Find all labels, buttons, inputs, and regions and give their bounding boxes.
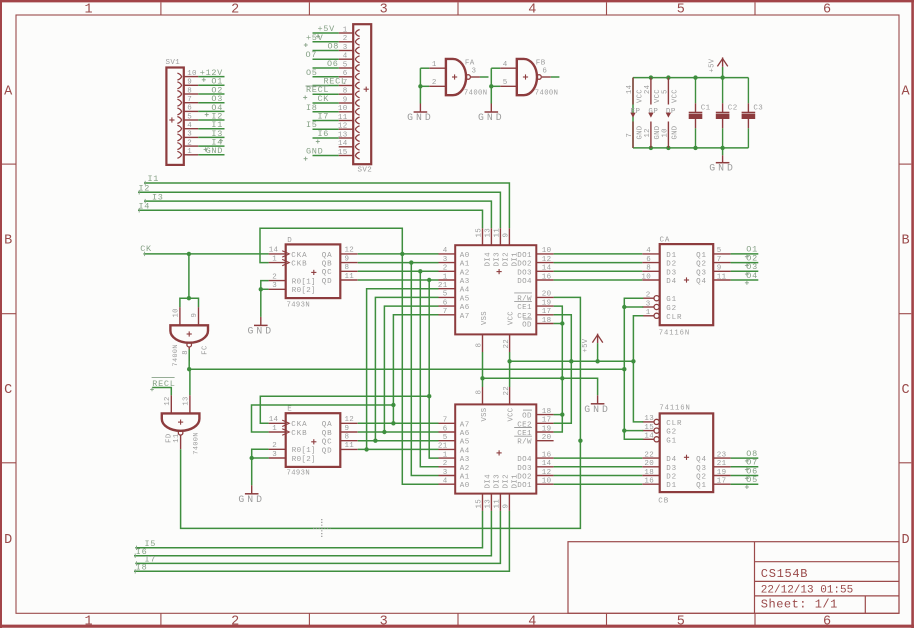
FB input pin 5 — [500, 85, 517, 87]
wire net I7 bus — [135, 511, 500, 564]
RAM H pin 13 DI3 — [490, 494, 492, 511]
FA output pin 3 — [471, 76, 480, 78]
junction H2 at latch G vertical — [622, 367, 626, 371]
CA pin 1 CLR — [642, 315, 654, 317]
svg-text:2: 2 — [343, 35, 348, 43]
FA origin cross — [452, 76, 457, 78]
wire FA inputs tied — [420, 67, 429, 69]
svg-text:5: 5 — [677, 615, 685, 628]
svg-text:A4: A4 — [460, 287, 470, 295]
svg-text:CKB: CKB — [291, 430, 307, 438]
svg-text:FD: FD — [166, 433, 174, 442]
svg-text:9: 9 — [345, 425, 350, 433]
CA pin 11 Q4 — [713, 279, 730, 281]
IC power GP arrow — [648, 113, 653, 118]
junction D R0 — [259, 287, 263, 291]
svg-text:5: 5 — [343, 61, 348, 69]
svg-text:O4: O4 — [746, 271, 758, 281]
E pin 14 CKA — [269, 422, 286, 424]
svg-text:4: 4 — [528, 3, 536, 18]
svg-text:10: 10 — [661, 128, 669, 137]
wire OD bottom stub to chain — [554, 414, 563, 416]
svg-text:CKB: CKB — [291, 261, 307, 269]
wire net I8 at SV2 pin 10 — [313, 111, 339, 113]
RAM pin 20 R/W — [536, 440, 553, 442]
svg-text:6: 6 — [542, 68, 547, 76]
CA pin 9 Q3 — [713, 270, 730, 272]
latch CA (74116N) box — [660, 244, 714, 325]
capacitor C2 — [722, 78, 724, 104]
wire D CKB feedback loop — [260, 228, 402, 262]
wire FB inputs tied — [491, 67, 500, 69]
svg-text:DI3: DI3 — [493, 474, 501, 489]
wire E R0 to ground — [252, 449, 269, 458]
junction CB G2 — [622, 428, 626, 432]
power rail left vertical — [632, 78, 634, 148]
ground below counter D — [260, 317, 262, 326]
svg-text:7: 7 — [717, 256, 722, 264]
svg-text:I8: I8 — [306, 103, 318, 113]
svg-text:G1: G1 — [666, 437, 677, 445]
svg-text:A0: A0 — [460, 482, 470, 490]
svg-text:22: 22 — [644, 451, 654, 459]
wire net O4 at SV1 — [198, 110, 224, 112]
wire OD top stub to chain — [554, 323, 563, 325]
SV2 pin 2 (+5V) — [339, 41, 354, 43]
svg-text:20: 20 — [644, 460, 654, 468]
svg-text:DI1: DI1 — [511, 474, 519, 489]
power GND symbol — [722, 148, 724, 155]
svg-text:Q3: Q3 — [696, 465, 707, 473]
wire net O1 — [731, 253, 759, 255]
IC power DP arrow — [666, 113, 671, 118]
svg-text:Q1: Q1 — [696, 252, 707, 260]
svg-text:3: 3 — [272, 282, 277, 290]
svg-text:Sheet: 1/1: Sheet: 1/1 — [761, 597, 838, 611]
FB input pin 4 — [500, 67, 517, 69]
svg-text:CA: CA — [660, 237, 671, 245]
svg-text:GND: GND — [206, 146, 223, 156]
svg-text:A7: A7 — [460, 313, 470, 321]
svg-text:15: 15 — [644, 424, 654, 432]
svg-text:C1: C1 — [701, 105, 711, 113]
svg-text:1: 1 — [272, 425, 277, 433]
D pin 2 R0(1) — [269, 280, 286, 282]
RAM G pin 13 DI3 — [490, 228, 492, 245]
svg-text:16: 16 — [644, 478, 654, 486]
svg-text:10: 10 — [542, 478, 552, 486]
svg-text:8: 8 — [646, 265, 651, 273]
svg-text:7400N: 7400N — [172, 344, 180, 366]
svg-text:3: 3 — [187, 131, 192, 139]
SV2 pin 13 (I6) — [339, 137, 354, 139]
svg-text:CK: CK — [318, 94, 330, 104]
svg-text:GND: GND — [709, 163, 736, 174]
SV2 pin 6 (O5) — [339, 76, 354, 78]
svg-text:O6: O6 — [327, 59, 339, 69]
latch CB (74116N) box — [660, 413, 714, 492]
svg-text:C: C — [902, 383, 910, 398]
wire net RECL at SV2 pin 8 — [313, 93, 339, 95]
SV2 pin 10 (I8) — [339, 111, 354, 113]
svg-text:OD: OD — [522, 413, 532, 421]
wire net +5V at SV2 pin 2 — [313, 41, 339, 43]
E pin 12 QA — [340, 422, 357, 424]
CA pin 4 D1 — [642, 253, 659, 255]
RAM pin 1 A3 — [439, 279, 456, 281]
RAM pin 4 A0 — [439, 253, 456, 255]
svg-text:CLR: CLR — [666, 314, 682, 322]
FC output inversion circle — [187, 342, 192, 347]
svg-text:GND: GND — [306, 147, 323, 157]
svg-text:R/W: R/W — [517, 295, 532, 303]
svg-text:QB: QB — [322, 430, 333, 438]
RAM H overlines on OD CE1 RW — [523, 409, 532, 411]
svg-text:D4: D4 — [666, 456, 677, 464]
svg-text:CS154B: CS154B — [761, 567, 808, 581]
svg-text:4: 4 — [187, 122, 192, 130]
junction OD bottom — [560, 412, 564, 416]
svg-text:O7: O7 — [306, 50, 318, 60]
svg-text:Q2: Q2 — [696, 261, 707, 269]
SV1 pin 9 (O1) — [184, 84, 199, 86]
wire net CK at SV2 pin 9 — [313, 102, 339, 104]
power rail +5V top — [633, 77, 748, 79]
svg-text:A: A — [4, 84, 13, 99]
RAM pin 19 CE1 — [536, 431, 553, 433]
svg-text:2: 2 — [231, 615, 239, 628]
svg-text:12: 12 — [644, 128, 652, 137]
RAM pin 19 CE1 — [536, 305, 553, 307]
svg-text:R0[2]: R0[2] — [292, 287, 316, 295]
wire net I5 at SV2 pin 12 — [313, 128, 339, 130]
wire E vertical 3 — [393, 315, 438, 424]
CB origin cross — [684, 456, 689, 458]
svg-text:A7: A7 — [460, 421, 470, 429]
wire QD1 vertical — [411, 263, 438, 476]
SV2 label origin crosses — [316, 35, 320, 37]
junction E QD — [364, 447, 368, 451]
RAM G overlines on CE1 OD RW — [514, 292, 532, 294]
svg-text:3: 3 — [472, 68, 477, 76]
RAM G pin 15 DI4 — [482, 228, 484, 245]
RAM pin 7 A7 — [439, 314, 456, 316]
IC power FP arrow — [630, 113, 635, 118]
FD input pin 12 — [170, 395, 172, 413]
svg-text:1: 1 — [443, 273, 448, 281]
D pin 14 CKA — [269, 253, 286, 255]
wire net I2 at SV1 — [198, 119, 224, 121]
svg-text:8: 8 — [476, 390, 484, 395]
svg-text:9: 9 — [343, 96, 348, 104]
svg-text:G2: G2 — [666, 305, 677, 313]
SV2 pin 15 (GND) — [339, 155, 354, 157]
RAM H pin 15 DI4 — [482, 494, 484, 511]
svg-text:CE1: CE1 — [517, 430, 532, 438]
svg-text:CK: CK — [140, 244, 152, 254]
RAM pin 6 A6 — [439, 431, 456, 433]
wire net I2 bus — [138, 192, 500, 228]
svg-text:+5V: +5V — [306, 33, 324, 43]
svg-text:SV1: SV1 — [166, 59, 181, 67]
svg-text:14: 14 — [542, 265, 552, 273]
SV2 pin 7 (RECL) — [339, 85, 354, 87]
svg-text:2: 2 — [443, 265, 448, 273]
svg-text:17: 17 — [542, 417, 552, 425]
RAM H pin 9 DI1 — [508, 494, 510, 511]
junctions on power rails — [649, 75, 653, 79]
junction CE1 chain at GND line — [560, 376, 564, 380]
wire net O8 at SV2 pin 3 — [313, 50, 339, 52]
wire net O6 — [731, 475, 759, 477]
svg-text:CE1: CE1 — [517, 304, 532, 312]
frame row ticks — [2, 163, 16, 165]
junction VCC at H1 — [507, 359, 511, 363]
RAM pin 5 A5 — [439, 296, 456, 298]
svg-text:DO3: DO3 — [517, 465, 532, 473]
junction E QA — [391, 421, 395, 425]
svg-text:12: 12 — [338, 123, 348, 131]
SV2 pin 14 — [339, 146, 354, 148]
RAM pin 16 DO4 — [536, 279, 553, 281]
IC power DP VCC pin 5 — [667, 78, 669, 105]
svg-text:9: 9 — [503, 504, 511, 509]
wire net I8 bus — [134, 511, 509, 572]
wire QD0 vertical — [402, 254, 438, 484]
svg-text:5: 5 — [503, 79, 508, 87]
D pin 11 QD — [340, 279, 357, 281]
svg-text:3: 3 — [380, 3, 388, 18]
RAM G origin cross — [497, 271, 502, 273]
CB pin 18 D2 — [642, 475, 659, 477]
FB output pin 6 — [542, 76, 551, 78]
svg-text:A6: A6 — [460, 430, 470, 438]
svg-text:8: 8 — [345, 264, 350, 272]
svg-text:DI4: DI4 — [484, 474, 492, 489]
wire net I4 bus — [138, 210, 483, 228]
svg-text:D1: D1 — [666, 482, 677, 490]
svg-text:QD: QD — [322, 278, 333, 286]
svg-text:D1: D1 — [666, 252, 677, 260]
FC input pin 9 — [198, 307, 200, 325]
wire row E QC — [358, 440, 439, 442]
svg-text:D: D — [287, 237, 292, 245]
svg-text:CB: CB — [658, 498, 669, 506]
wire VCC between RAMs — [509, 352, 511, 387]
svg-text:B: B — [902, 234, 910, 249]
wire net I3 bus — [144, 201, 491, 228]
svg-text:7400N: 7400N — [193, 432, 201, 454]
junction D QD — [427, 278, 431, 282]
SV2 pin 11 (I7) — [339, 120, 354, 122]
svg-text:3: 3 — [443, 469, 448, 477]
wire DO row bottom — [554, 457, 643, 459]
svg-text:15: 15 — [476, 499, 484, 509]
E pin 9 QB — [340, 431, 357, 433]
svg-text:14: 14 — [269, 416, 279, 424]
power +5V symbol — [722, 57, 724, 67]
nand gate FD 7400N — [162, 413, 200, 430]
svg-text:Q4: Q4 — [696, 456, 707, 464]
svg-text:5: 5 — [443, 434, 448, 442]
CA pin 6 D2 — [642, 262, 659, 264]
svg-text:A3: A3 — [460, 278, 470, 286]
svg-text:1: 1 — [187, 148, 192, 156]
wire DO row bottom — [554, 475, 643, 477]
svg-text:6: 6 — [823, 615, 831, 628]
svg-text:1: 1 — [443, 451, 448, 459]
svg-text:OD: OD — [522, 322, 532, 330]
svg-text:C3: C3 — [753, 105, 763, 113]
junction CK to FC — [187, 252, 191, 256]
svg-text:DI3: DI3 — [493, 252, 501, 267]
wire FD output to RAM R/W — [181, 441, 581, 529]
svg-text:4: 4 — [443, 478, 448, 486]
RAM pin 21 A4 — [439, 288, 456, 290]
svg-text:1: 1 — [432, 61, 437, 69]
wire row A0/DO1 — [358, 253, 439, 255]
svg-text:G2: G2 — [666, 429, 677, 437]
svg-text:Q3: Q3 — [696, 269, 707, 277]
junction FC inputs — [187, 296, 191, 300]
wire QD2 vertical — [420, 271, 438, 467]
RAM pin 3 A1 — [439, 475, 456, 477]
E origin cross — [311, 441, 316, 443]
wire net I1 at SV1 — [198, 128, 224, 130]
svg-text:14: 14 — [269, 247, 279, 255]
RAM pin 2 A2 — [439, 466, 456, 468]
svg-text:R0[1]: R0[1] — [292, 279, 316, 287]
svg-text:1: 1 — [272, 255, 277, 263]
svg-text:GND: GND — [584, 404, 611, 415]
svg-text:5: 5 — [677, 3, 685, 18]
svg-text:18: 18 — [644, 469, 654, 477]
junction E CKA on QD column — [427, 394, 431, 398]
svg-text:D2: D2 — [666, 474, 677, 482]
RAM H origin cross — [497, 452, 502, 454]
SV2 pin 4 (O7) — [339, 58, 354, 60]
svg-text:20: 20 — [542, 434, 552, 442]
SV1 pin 5 (I2) — [184, 119, 199, 121]
wire net O1 at SV1 — [198, 84, 224, 86]
svg-text:11: 11 — [173, 434, 181, 443]
svg-text:11: 11 — [717, 273, 727, 281]
svg-text:10: 10 — [173, 308, 181, 317]
wire net I1 bus — [144, 183, 509, 228]
svg-text:11: 11 — [345, 442, 355, 450]
junction VSS at H3 — [480, 376, 484, 380]
CA pin 8 D3 — [642, 270, 659, 272]
wire net O5 — [731, 483, 759, 485]
svg-text:17: 17 — [717, 478, 727, 486]
svg-text:19: 19 — [542, 425, 552, 433]
RAM H pin 11 DI2 — [499, 494, 501, 511]
connector SV1 — [166, 68, 183, 165]
CB pin 22 D4 — [642, 457, 659, 459]
svg-text:7400N: 7400N — [464, 90, 488, 98]
wire CE1/OD chain — [554, 306, 563, 432]
svg-text:QA: QA — [322, 252, 333, 260]
svg-text:9: 9 — [717, 265, 722, 273]
junction D QB — [409, 260, 413, 264]
FA input pin 1 — [429, 67, 446, 69]
svg-text:2: 2 — [443, 460, 448, 468]
svg-text:19: 19 — [717, 469, 727, 477]
svg-text:CE2: CE2 — [517, 421, 532, 429]
svg-text:7: 7 — [187, 96, 192, 104]
svg-text:16: 16 — [542, 451, 552, 459]
wire net O7 — [731, 466, 759, 468]
svg-text:SV2: SV2 — [358, 166, 373, 174]
svg-text:74116N: 74116N — [659, 329, 690, 337]
svg-text:6: 6 — [823, 3, 831, 18]
wire D R0 to ground — [261, 281, 269, 290]
svg-text:12: 12 — [542, 469, 552, 477]
svg-text:7493N: 7493N — [287, 301, 311, 309]
svg-text:10: 10 — [542, 247, 552, 255]
FD input pin 13 — [189, 395, 191, 413]
SV2 pin 8 (RECL) — [339, 93, 354, 95]
wire net O4 — [731, 279, 759, 281]
net label RECL at FD — [152, 388, 171, 396]
RAM pin 18 OD — [536, 323, 553, 325]
svg-text:15: 15 — [338, 149, 348, 157]
wire E vertical 1 — [375, 297, 438, 440]
SV1 pin 10 (+12V) — [184, 76, 199, 78]
CA origin cross — [684, 279, 689, 281]
wire latch CLR vertical — [633, 316, 643, 422]
svg-text:QD: QD — [322, 447, 333, 455]
E pin 3 R0(2) — [269, 457, 286, 459]
svg-text:9: 9 — [503, 233, 511, 238]
wire net O8 — [731, 457, 759, 459]
svg-text:4: 4 — [646, 247, 651, 255]
wire net GND at SV1 — [198, 154, 224, 156]
junction +5V stem at H1 — [595, 359, 599, 363]
svg-text:21: 21 — [438, 443, 448, 451]
svg-text:2: 2 — [646, 292, 651, 300]
svg-text:DO2: DO2 — [517, 261, 532, 269]
FD output inversion circle — [178, 431, 183, 436]
svg-text:+5V: +5V — [582, 338, 590, 352]
wire net I5 bus — [135, 511, 482, 548]
RAM G pin 22 VCC — [509, 334, 511, 352]
svg-text:9: 9 — [345, 255, 350, 263]
svg-text:12: 12 — [164, 396, 172, 405]
E pin 1 CKB — [269, 431, 286, 433]
FD output pin 11 — [180, 435, 182, 449]
CA pin 2 G1 — [642, 297, 654, 299]
SV1 pin 3 (I3) — [184, 136, 199, 138]
svg-text:Q4: Q4 — [696, 278, 707, 286]
svg-text:2: 2 — [272, 442, 277, 450]
svg-text:DI2: DI2 — [502, 474, 510, 488]
junction OD top — [560, 321, 564, 325]
svg-text:11: 11 — [494, 228, 502, 238]
junction E QB — [382, 430, 386, 434]
RAM pin 3 A1 — [439, 262, 456, 264]
IC power DP GND pin 10 — [667, 122, 669, 148]
wire row A3/DO4 — [358, 279, 439, 281]
svg-text:8: 8 — [345, 434, 350, 442]
svg-text:4: 4 — [443, 247, 448, 255]
svg-text:QB: QB — [322, 261, 333, 269]
wire net I6 at SV2 pin 13 — [313, 137, 339, 139]
RAM pin 10 DO1 — [536, 483, 553, 485]
svg-text:20: 20 — [542, 291, 552, 299]
svg-text:6: 6 — [443, 299, 448, 307]
SV1 pin 4 (I1) — [184, 128, 199, 130]
